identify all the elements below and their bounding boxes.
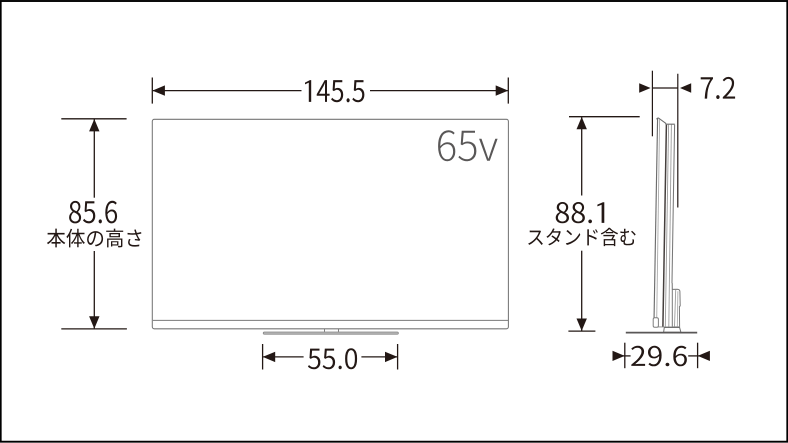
dim line lower seg — [581, 251, 583, 331]
side profile dark band — [663, 125, 667, 327]
ext tick right — [507, 78, 509, 104]
label 29.6 — [631, 346, 687, 367]
tail right — [688, 355, 701, 357]
stand neck right — [338, 329, 340, 332]
stand foot trapezoid — [664, 328, 681, 333]
side profile front edge — [654, 118, 658, 327]
ext tick top — [61, 118, 126, 120]
label 88.1 — [556, 202, 605, 223]
dim line right seg — [361, 356, 397, 358]
front chin block — [653, 318, 658, 328]
TV bottom bezel line — [153, 319, 508, 321]
ext tick right — [397, 344, 399, 370]
arrow left — [152, 85, 165, 95]
label 145.5 — [305, 80, 364, 102]
ext tick left — [262, 344, 264, 370]
back box (electronics bulge) — [672, 289, 680, 327]
arrow left pointing right — [613, 351, 625, 361]
arrow right pointing left — [698, 351, 710, 361]
ext tick left — [151, 78, 153, 104]
dim line upper seg — [581, 117, 583, 195]
arrow up — [577, 117, 587, 129]
stand neck left — [324, 329, 326, 332]
arrow left pointing right — [639, 83, 650, 93]
dim line left seg — [153, 90, 302, 92]
panel bottom boundary — [656, 326, 680, 328]
label スタンド含む — [528, 228, 636, 246]
stand base bar — [263, 332, 398, 334]
ext tick right — [697, 343, 699, 369]
TV body outline — [152, 119, 508, 328]
arrow down — [89, 316, 99, 328]
label 85.6 — [69, 201, 117, 224]
arrow right — [496, 85, 509, 95]
floor line — [626, 332, 697, 334]
dim line — [652, 87, 677, 89]
ext line right — [677, 74, 679, 208]
side profile line b — [665, 125, 668, 327]
side profile top slant edge — [657, 118, 675, 124]
arrow up — [89, 119, 99, 131]
label 本体の高さ — [47, 229, 141, 248]
arrow down — [577, 319, 587, 331]
arrow left — [263, 352, 276, 362]
side profile inner front line — [657, 120, 660, 328]
box interior line 2 — [676, 291, 679, 327]
dim line right seg — [370, 90, 508, 92]
side profile back line with hook — [672, 125, 675, 290]
arrow right pointing left — [680, 83, 691, 93]
tail left — [619, 355, 631, 357]
side profile line c — [669, 125, 672, 327]
dim line lower seg — [93, 251, 95, 328]
dim line upper seg — [93, 119, 95, 197]
label 7.2 — [701, 77, 735, 99]
arrow right — [385, 352, 398, 362]
ext tick bottom — [568, 330, 595, 332]
box interior line 1 — [675, 290, 676, 327]
ext line left — [651, 71, 653, 137]
65v label — [438, 130, 498, 161]
ext tick bottom — [61, 328, 127, 330]
ext tick left — [624, 343, 626, 369]
ext tick top — [569, 116, 640, 118]
label 55.0 — [308, 348, 357, 369]
dim line left seg — [263, 356, 304, 358]
